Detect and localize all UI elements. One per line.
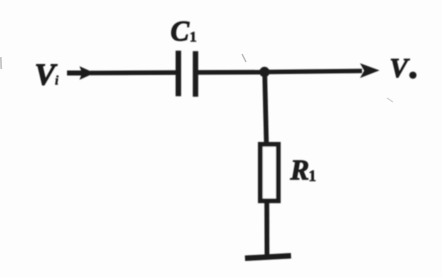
svg-text:1: 1 [309, 168, 317, 185]
svg-text:C: C [171, 16, 190, 47]
ground [245, 256, 291, 258]
svg-text:1: 1 [190, 30, 197, 46]
svg-text:i: i [55, 74, 59, 88]
wire node to output arrow [265, 71, 362, 72]
wire node to resistor [265, 72, 267, 144]
stray scan mark left edge [0, 57, 2, 69]
wire capacitor to node [197, 70, 266, 75]
label R1 [289, 156, 316, 187]
resistor R1 [260, 144, 278, 201]
wire resistor to ground [264, 201, 269, 256]
node junction [259, 67, 269, 77]
output arrow [360, 63, 380, 78]
label Vo [390, 52, 417, 83]
label C1 [171, 16, 197, 47]
svg-text:V: V [390, 52, 411, 83]
stray scan mark near node [242, 54, 246, 62]
wire input to capacitor [90, 70, 177, 75]
input arrow [67, 66, 95, 80]
svg-text:R: R [289, 156, 309, 187]
stray scan mark right of node [387, 98, 393, 102]
capacitor C1 [176, 51, 199, 97]
label Vi [35, 57, 60, 92]
